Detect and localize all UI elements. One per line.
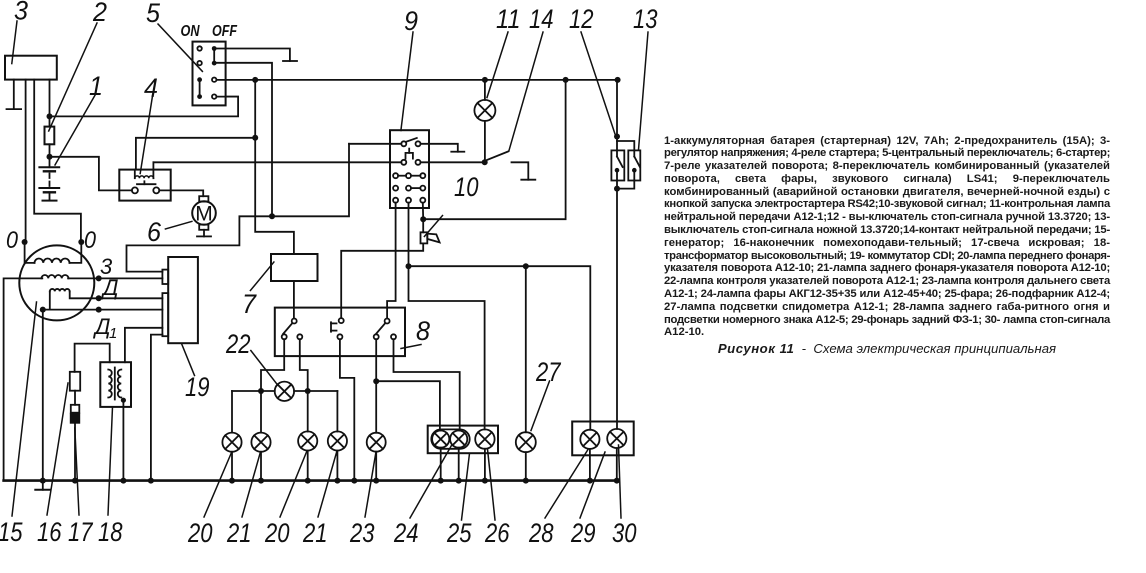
leader 20b bbox=[280, 451, 307, 517]
headlight 25 box bbox=[428, 426, 498, 454]
leader 21a bbox=[242, 452, 261, 517]
combined switch S8 box bbox=[275, 308, 405, 357]
HV transformer 18 box bbox=[100, 362, 131, 407]
stop switch 13 box bbox=[628, 150, 640, 180]
neutral switch 14 ground bbox=[512, 162, 529, 179]
front left turn lamp 20 bbox=[222, 433, 241, 452]
neutral lamp 11 bbox=[474, 100, 495, 121]
speedometer lamp 27 bbox=[516, 432, 536, 452]
wire switch5 pin1 to ground bbox=[216, 49, 290, 62]
wire lamp24b to bus bbox=[458, 448, 460, 481]
spark plug 17 insulator bbox=[71, 405, 80, 413]
leader 13 bbox=[639, 32, 649, 150]
leader 27 bbox=[531, 381, 550, 431]
wire stop switches join bbox=[617, 181, 634, 189]
transformer core bbox=[114, 368, 116, 400]
svg-text:2: 2 bbox=[92, 0, 107, 27]
neutral switch 14 lever bbox=[487, 151, 509, 160]
wire to front left turn lamp bbox=[231, 391, 233, 433]
node net 3 bbox=[96, 275, 102, 281]
rear left turn lamp 21 bbox=[251, 433, 270, 452]
wire plug to bus bbox=[74, 424, 76, 481]
starter relay K4 box bbox=[119, 170, 170, 201]
svg-text:1: 1 bbox=[109, 325, 117, 342]
leader 23 bbox=[365, 452, 376, 517]
svg-text:20: 20 bbox=[264, 518, 289, 548]
wire regulator pin to fuse bbox=[49, 80, 51, 127]
svg-text:26: 26 bbox=[484, 518, 510, 548]
svg-text:Д: Д bbox=[92, 314, 111, 339]
stop lamp 30 bbox=[607, 429, 626, 448]
transformer primary coil bbox=[108, 370, 112, 398]
node horn junction bbox=[420, 216, 426, 222]
battery GB1 plates bbox=[39, 166, 59, 168]
wire lamp28 to bus bbox=[589, 449, 591, 481]
wire lamp21R to bus bbox=[336, 451, 338, 481]
wire lamp26 feed bbox=[409, 266, 485, 429]
svg-text:22: 22 bbox=[225, 329, 250, 359]
wire speedo lamp feed bbox=[525, 266, 527, 432]
wire stop switch left bbox=[349, 143, 401, 145]
switch8 turn contacts bottom bbox=[282, 334, 287, 339]
stop switch 12 box bbox=[611, 150, 624, 180]
wire lamp23 to bus bbox=[375, 452, 377, 481]
wire transformer HV to plug cap bbox=[75, 344, 110, 372]
svg-text:11: 11 bbox=[496, 4, 521, 34]
headlight lamp 24 high filament bbox=[450, 431, 467, 448]
leader 28 bbox=[545, 450, 588, 519]
battery ground bbox=[49, 192, 51, 200]
wire low beam to headlamp bbox=[376, 381, 440, 430]
svg-text:30: 30 bbox=[612, 518, 637, 548]
wire lamp21L to bus bbox=[260, 452, 262, 481]
svg-text:15: 15 bbox=[0, 517, 23, 547]
svg-text:ON: ON bbox=[181, 23, 200, 40]
wire switch5 pin4 bbox=[216, 96, 238, 98]
wire lamp20R to bus bbox=[307, 451, 309, 481]
node tail feed junction bbox=[406, 263, 412, 269]
leader 1 bbox=[55, 95, 95, 166]
leader 29 bbox=[580, 452, 605, 518]
svg-text:24: 24 bbox=[393, 518, 418, 548]
main bus wire bbox=[216, 79, 617, 81]
starter M6 ground bbox=[203, 230, 205, 237]
wire relay4 to starter bbox=[159, 190, 203, 196]
node net D1 bbox=[40, 307, 46, 313]
transformer secondary coil bbox=[118, 370, 121, 398]
leader 25 bbox=[462, 453, 470, 520]
node speedo lamp junction bbox=[523, 263, 529, 269]
tail lamp 29 box bbox=[572, 422, 634, 456]
wire lamp11 down bbox=[484, 121, 486, 162]
wire bus to turn relay bbox=[255, 80, 294, 254]
svg-text:17: 17 bbox=[68, 517, 93, 547]
wire CDI primary to transformer bbox=[125, 328, 162, 362]
wire relay4 coil to bus node bbox=[136, 138, 255, 170]
switch9 row4 contacts bbox=[393, 186, 398, 191]
wire switch9 pin to horn bbox=[422, 203, 424, 233]
wire switch9 pin to lights net bbox=[408, 203, 410, 267]
wire ignition net to CDI bbox=[127, 144, 350, 272]
svg-text:9: 9 bbox=[404, 6, 418, 36]
switch9 row5 contacts bbox=[393, 198, 398, 203]
svg-text:25: 25 bbox=[446, 518, 472, 548]
ground bus wire bbox=[4, 479, 617, 482]
switch9 button contacts bbox=[401, 160, 406, 165]
CDI connector tab1 bbox=[162, 270, 168, 284]
node net D bbox=[96, 295, 102, 301]
transformer bottom junction bbox=[121, 398, 126, 403]
wire turn lamps left rail bbox=[232, 390, 275, 392]
wire stop switch to ground bbox=[421, 144, 458, 152]
wire to front right turn lamp bbox=[307, 391, 309, 432]
wire regulator pin to left 0 node bbox=[25, 80, 27, 242]
tail lamp 28 bbox=[580, 430, 599, 449]
wire lamp26 to bus bbox=[484, 449, 486, 481]
leader 5 bbox=[158, 24, 202, 71]
wire battery plus to starter relay bbox=[50, 157, 132, 191]
wire regulator pin to right 0 node bbox=[34, 80, 81, 242]
voltage regulator box U3 bbox=[5, 56, 57, 80]
starter M6 bottom terminal bbox=[199, 225, 208, 230]
headlight lamp 24 low filament bbox=[432, 431, 449, 448]
relay4 contacts bbox=[132, 187, 138, 193]
wire switch5 pin2 ignition bbox=[216, 63, 272, 217]
wire cap to plug bbox=[74, 391, 76, 405]
wire CDI ground to bus bbox=[151, 335, 163, 481]
leader 7 bbox=[250, 262, 274, 291]
node relay4 coil bus junction bbox=[252, 135, 258, 141]
wire bus to lamp11 bbox=[484, 80, 486, 100]
leader 22 bbox=[251, 351, 278, 386]
wire to hand stop switch bbox=[617, 141, 634, 150]
wire low beam to control lamp 23 bbox=[375, 381, 377, 433]
svg-text:0: 0 bbox=[6, 227, 19, 254]
switch5 OFF column contacts bbox=[212, 78, 216, 82]
wire bus to stop switches bbox=[616, 80, 618, 150]
generator 15 body bbox=[19, 245, 94, 320]
svg-text:16: 16 bbox=[37, 517, 62, 547]
svg-text:12: 12 bbox=[569, 4, 594, 34]
spark plug 17 body bbox=[70, 413, 80, 424]
turn relay K7 box bbox=[271, 254, 318, 281]
wire lamp24a to bus bbox=[440, 448, 442, 481]
svg-text:20: 20 bbox=[187, 518, 212, 548]
leader 3 bbox=[12, 21, 17, 64]
wire low beam bbox=[375, 339, 377, 381]
leader 24 bbox=[410, 445, 452, 519]
svg-text:27: 27 bbox=[535, 357, 561, 387]
horn 10 body bbox=[421, 232, 428, 243]
wire left turn feed bbox=[261, 339, 284, 391]
high beam control lamp 23 bbox=[367, 433, 386, 452]
turn control lamp 22 bbox=[275, 382, 294, 401]
node low beam junction bbox=[373, 378, 379, 384]
leader 14 bbox=[509, 32, 543, 151]
switch8 beam lever bbox=[376, 323, 385, 334]
switch8 turn contact top bbox=[292, 319, 297, 324]
svg-text:3: 3 bbox=[14, 0, 28, 26]
wire high beam bbox=[394, 339, 460, 430]
wire relay coil to starter button bbox=[153, 161, 401, 163]
svg-text:21: 21 bbox=[226, 518, 251, 548]
svg-text:0: 0 bbox=[84, 227, 97, 254]
regulator ground pin bbox=[13, 80, 15, 110]
svg-text:10: 10 bbox=[454, 172, 479, 202]
switch9 row3 contacts bbox=[393, 173, 398, 178]
leader 9 bbox=[401, 32, 413, 131]
svg-text:1: 1 bbox=[89, 71, 103, 101]
front right turn lamp 20 bbox=[298, 431, 317, 450]
wire net3 to CDI bbox=[68, 277, 162, 279]
svg-text:14: 14 bbox=[529, 4, 554, 34]
leader 8 bbox=[401, 345, 421, 349]
wire switch9 pin to dip switch bbox=[387, 203, 396, 319]
leader 15 bbox=[12, 302, 37, 516]
node right turn junction bbox=[305, 388, 311, 394]
svg-text:28: 28 bbox=[528, 518, 553, 548]
node battery plus junction bbox=[47, 154, 53, 160]
svg-text:19: 19 bbox=[185, 372, 210, 402]
leader 4 bbox=[140, 96, 152, 174]
leader 18 bbox=[108, 407, 113, 515]
leader 12 bbox=[581, 32, 616, 136]
starter M6 top terminal bbox=[199, 196, 208, 201]
wire horn to button bbox=[341, 243, 423, 318]
wire to rear right turn lamp bbox=[336, 391, 338, 432]
leader 30 bbox=[619, 445, 622, 518]
wire horn button to bus bbox=[340, 339, 354, 480]
wire generator common to bus bbox=[42, 310, 44, 481]
wire lamp30 to bus bbox=[616, 448, 618, 481]
rear right turn lamp 21 bbox=[328, 431, 347, 450]
node battery feed junction bbox=[47, 113, 53, 119]
switch9 stop contacts bbox=[401, 141, 406, 146]
generator trigger coil bbox=[50, 289, 70, 291]
node neutral junction bbox=[482, 159, 488, 165]
switch5 ON column contacts bbox=[197, 46, 201, 50]
node net D1 dot2 bbox=[96, 307, 102, 313]
central switch S5 box bbox=[193, 42, 226, 106]
switch5 OFF column bar bbox=[213, 49, 215, 64]
wire transformer to bus bbox=[122, 400, 124, 480]
leader 2 bbox=[49, 23, 97, 131]
node 0 right bbox=[78, 239, 84, 245]
svg-text:13: 13 bbox=[633, 4, 658, 34]
leader 21b bbox=[318, 451, 337, 517]
stop switch 12 lever bbox=[616, 150, 618, 156]
svg-text:OFF: OFF bbox=[212, 23, 238, 40]
switch8 beam contact top bbox=[385, 319, 390, 324]
leader 6 bbox=[165, 221, 192, 229]
svg-text:18: 18 bbox=[98, 517, 123, 547]
switch8 horn button bbox=[330, 322, 332, 331]
wire charging coil left border bbox=[4, 278, 43, 480]
wire to rear left turn lamp bbox=[260, 391, 262, 433]
suppressor cap 16 bbox=[70, 372, 80, 391]
wire relay7 to switch8 bbox=[293, 281, 295, 319]
leader 17 bbox=[75, 428, 79, 515]
generator lighting coil bbox=[35, 259, 70, 263]
svg-text:7: 7 bbox=[242, 289, 257, 319]
leader 16 bbox=[47, 383, 68, 515]
leader 10 bbox=[424, 216, 442, 237]
node ignition switch5 junction bbox=[269, 213, 275, 219]
wire net D1 to CDI bbox=[43, 309, 163, 311]
wire tail feed bbox=[409, 266, 591, 430]
svg-text:Д: Д bbox=[100, 275, 119, 300]
wire button row right bbox=[421, 161, 483, 163]
svg-text:23: 23 bbox=[349, 518, 374, 548]
svg-text:4: 4 bbox=[144, 73, 158, 103]
switch8 beam contacts bottom bbox=[374, 334, 379, 339]
leader 19 bbox=[182, 344, 195, 376]
wire right turn feed bbox=[300, 339, 308, 391]
stop switch 13 lever bbox=[633, 150, 635, 156]
wire horn node to bus bbox=[423, 80, 565, 219]
wire fuse to battery bbox=[49, 144, 51, 167]
generator common ground bbox=[42, 481, 44, 490]
svg-text:8: 8 bbox=[416, 316, 430, 346]
svg-text:5: 5 bbox=[146, 0, 161, 28]
svg-text:M: M bbox=[195, 203, 213, 226]
CDI connector tab2 bbox=[162, 293, 168, 336]
switch5 ON column bar bbox=[199, 80, 201, 97]
leader 20a bbox=[204, 452, 232, 517]
node left turn junction bbox=[258, 388, 264, 394]
generator charging coil bbox=[42, 275, 69, 278]
relay4 coil bbox=[135, 176, 154, 178]
wire battery feed to main switch bbox=[50, 97, 239, 117]
headlight lamp 24 envelope bbox=[431, 429, 469, 448]
switch8 turn lever bbox=[283, 323, 292, 334]
wire lamp27 to bus bbox=[525, 452, 527, 480]
starter M6 body bbox=[192, 201, 216, 225]
parking lamp 26 bbox=[475, 429, 494, 448]
svg-text:21: 21 bbox=[302, 518, 327, 548]
combined switch S9 box bbox=[390, 130, 429, 208]
wire lamp20L to bus bbox=[231, 452, 233, 481]
wire to stop lamp 30 bbox=[616, 189, 618, 429]
switch8 horn contacts bbox=[339, 318, 344, 323]
switch9 starter button bbox=[406, 153, 413, 159]
svg-text:29: 29 bbox=[570, 518, 595, 548]
fuse F2 bbox=[45, 127, 55, 145]
leader 26 bbox=[488, 449, 496, 520]
wire trigger coil right bbox=[70, 291, 163, 298]
leader 11 bbox=[487, 32, 508, 98]
CDI commutator 19 box bbox=[168, 257, 198, 343]
svg-text:6: 6 bbox=[147, 217, 162, 247]
wire trigger coil left bbox=[49, 291, 51, 309]
wire turn lamps right rail bbox=[294, 390, 337, 392]
node 0 left bbox=[22, 239, 28, 245]
